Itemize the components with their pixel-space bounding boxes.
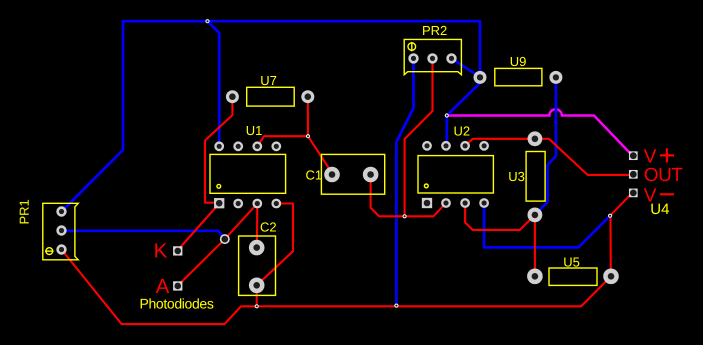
PR2 polarity mark — [408, 43, 416, 51]
resistor U5 pads — [527, 269, 619, 285]
wire red U2 pin bottom-3 to U3 pin2 — [465, 203, 535, 230]
wire red PR2 pin2 down to via — [405, 58, 433, 216]
pad K (photodiode cathode) — [173, 246, 182, 255]
resistor U9 pads — [474, 71, 563, 84]
wire red U2 pin top-3 to U3 pin1 — [465, 139, 535, 146]
wire red U3 pin2 down to U5 pin1 — [534, 215, 536, 276]
svg-text:PR1: PR1 — [17, 199, 32, 224]
connector PR2 outline — [404, 39, 461, 74]
svg-text:V: V — [644, 185, 657, 206]
wire red A pad to via to U1 pin bottom-3 — [178, 204, 257, 286]
op-amp U2 outline — [418, 156, 493, 193]
via on bottom rail blue junction — [394, 304, 398, 308]
wire blue U2 pin bottom-4 to via near V- — [484, 203, 610, 247]
resistor U3 outline — [526, 152, 545, 202]
wire blue top rail from left corner to U9 pin1 — [123, 21, 480, 77]
wire red U1 pin bottom-4 to C2 pin2 — [257, 204, 293, 286]
svg-text:A: A — [156, 275, 170, 298]
svg-text:U3: U3 — [508, 169, 525, 184]
wire red K pad to U1 pin1 square pad — [178, 204, 219, 251]
wire red C2 pin1 to U1 pin bottom-3 — [256, 204, 258, 248]
via on bottom rail below C2 — [255, 304, 259, 308]
wire red V- pad to via — [610, 193, 632, 216]
via red junction below U2 — [403, 214, 407, 218]
svg-text:U5: U5 — [563, 255, 580, 270]
via on top blue rail — [205, 19, 209, 23]
wire blue U9 pin1 to via then U2 pin top-2 — [447, 77, 480, 146]
capacitor C2 pads — [249, 240, 265, 293]
wire red U3 pin1 to OUT pad — [535, 139, 632, 175]
U1 pin1 mark — [217, 184, 221, 188]
svg-text:U7: U7 — [260, 73, 277, 88]
via big junction near C2 — [220, 234, 230, 244]
resistor U3 pads — [528, 131, 543, 222]
resistor U5 outline — [549, 268, 597, 285]
op-amp U1 pads — [214, 141, 281, 208]
pad A (photodiode anode) — [173, 281, 182, 290]
connector PR2 pads — [408, 53, 456, 63]
wire magenta via to V+ pad with jumper arc — [447, 109, 633, 155]
connector PR1 outline — [43, 203, 78, 259]
via magenta start — [445, 113, 449, 117]
wire red U1 pin top-3 to via — [257, 136, 308, 146]
wire blue PR1 pin2 to via near C2 — [62, 231, 225, 239]
PR1 polarity mark — [46, 248, 53, 255]
op-amp U2 pads — [422, 141, 489, 208]
wire red U7 pin2 down to via — [307, 97, 309, 137]
resistor U7 outline — [247, 87, 295, 106]
wire blue PR2 pin1 down to bottom via — [396, 58, 413, 305]
wire red PR1 pin3 along bottom edge to U5 right pad — [62, 250, 612, 325]
wire red C2 pin2 stub to bottom rail via — [256, 285, 258, 306]
wire red via down to U5 pin2 — [609, 216, 611, 277]
svg-text:U9: U9 — [510, 54, 527, 69]
connector PR1 pads — [56, 206, 66, 254]
wire red C1 pin2 to via to U2 pin bottom-2 — [371, 175, 446, 217]
svg-text:Photodiodes: Photodiodes — [140, 296, 214, 312]
op-amp U1 outline — [210, 154, 286, 193]
svg-text:C2: C2 — [260, 220, 277, 235]
wire blue from top-rail via down to U1 pin top-1 — [208, 21, 220, 146]
capacitor C1 pads — [324, 167, 378, 183]
resistor U9 outline — [495, 68, 542, 85]
wire blue PR2 pin3 to U9 pin1 — [452, 58, 481, 77]
svg-text:PR2: PR2 — [422, 23, 447, 38]
wire blue U9 pin2 down to U3 pin2 — [535, 77, 556, 215]
svg-text:U1: U1 — [246, 123, 263, 138]
wire red via to C1 pin1 — [308, 136, 333, 174]
svg-text:C1: C1 — [306, 167, 323, 182]
capacitor C1 outline — [321, 154, 384, 194]
svg-text:U2: U2 — [454, 124, 471, 139]
connector U4 square pads — [629, 151, 638, 197]
via red/blue junction near V- — [608, 214, 612, 218]
wire red U7 pin1 down to U1 pin1 square pad — [205, 97, 232, 203]
wire blue left vertical + diagonal to PR1 pin1 — [62, 21, 124, 211]
via red junction below U7 — [306, 134, 310, 138]
U2 pin1 mark — [424, 184, 428, 188]
svg-text:K: K — [154, 239, 168, 262]
capacitor C2 outline — [239, 236, 276, 295]
resistor U7 pads — [226, 90, 314, 103]
svg-text:OUT: OUT — [644, 165, 684, 186]
